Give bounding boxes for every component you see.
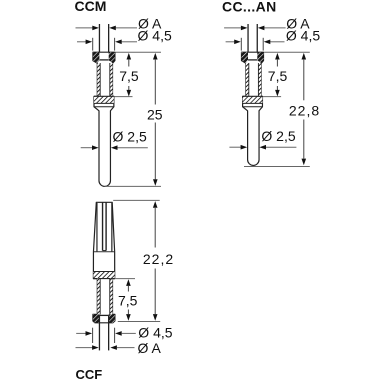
svg-text:Ø 4,5: Ø 4,5: [138, 28, 172, 44]
CCF crimp tube walls: [99, 315, 108, 350]
CCF dim ØA leader: [76, 347, 93, 349]
CCM barrel inner wall lines: [99, 63, 101, 96]
svg-text:Ø 4,5: Ø 4,5: [138, 324, 172, 340]
CCF sleeve slot lines: [103, 202, 107, 250]
CC...AN knurled collar band: [243, 96, 263, 103]
CCF sleeve nose transition line: [94, 251, 114, 253]
CCF barrel inner wall lines: [99, 279, 101, 315]
CCF dim 7,5: [126, 279, 131, 286]
CCF flange inner shoulder line: [99, 314, 108, 316]
CCM flange inner shoulder line: [99, 59, 108, 61]
CCF band-bottom extension line: [115, 278, 135, 280]
svg-text:CC...AN: CC...AN: [222, 0, 277, 15]
svg-text:CCM: CCM: [75, 0, 107, 14]
CC...AN dim Ø4,5 leader: [226, 41, 285, 43]
CC...AN dim Ø4,5 ticks: [241, 38, 263, 51]
CCM body outline (flange, barrel, collar, pin): [93, 52, 115, 186]
CC...AN collar-top extension line: [263, 96, 281, 98]
CCF dim Ø4,5 ticks: [93, 328, 115, 343]
CC...AN flange-top extension line: [264, 51, 310, 53]
svg-text:7,5: 7,5: [118, 292, 138, 308]
CCM dim 7,5: [127, 53, 132, 60]
CCF knurled band: [93, 272, 114, 279]
CC...AN crimp tube walls: [248, 24, 257, 60]
svg-text:Ø 2,5: Ø 2,5: [261, 128, 295, 144]
CCM dim Ø4,5 ticks: [93, 38, 115, 51]
CC...AN barrel inner wall lines: [248, 63, 250, 96]
CCF dim Ø4,5 leader: [76, 332, 86, 334]
CC...AN barrel hatched walls: [246, 63, 249, 96]
CCF barrel hatched walls: [97, 279, 100, 315]
CCM knurled collar band: [94, 96, 114, 103]
CC...AN dim Ø2,5 leader: [229, 146, 241, 148]
CCM dim Ø2,5 leader: [81, 147, 93, 149]
svg-text:22,8: 22,8: [289, 103, 320, 119]
CC...AN dim ØA leader: [224, 27, 286, 29]
CCF sleeve-top extension line: [113, 199, 160, 201]
svg-text:Ø 4,5: Ø 4,5: [286, 28, 320, 44]
CCM dim Ø4,5 leader: [77, 41, 137, 43]
CC...AN body outline: [242, 52, 264, 165]
CCM flange-top extension line: [116, 51, 162, 53]
CCM barrel hatched walls: [97, 63, 100, 96]
CCF body outline (sleeve, band, barrel, flange): [93, 202, 115, 322]
CCF sleeve slot bottom cap: [103, 250, 107, 252]
CC...AN flange inner shoulder line: [248, 59, 257, 61]
CCF dim 22,2: [153, 201, 158, 208]
CCF flange hatched walls: [93, 314, 100, 322]
svg-text:25: 25: [147, 106, 163, 122]
svg-text:7,5: 7,5: [119, 68, 139, 84]
CCM pin-bottom extension line: [105, 185, 162, 187]
CCM flange hatched walls: [93, 52, 100, 63]
CCM dim ØA leader: [76, 27, 138, 29]
CC...AN flange hatched walls: [242, 52, 249, 63]
CCM dim 25: [153, 53, 158, 60]
CCM collar-top extension line: [114, 96, 132, 98]
svg-text:CCF: CCF: [76, 367, 103, 380]
CCF flange-bottom extension line: [118, 321, 160, 323]
CC...AN dim 7,5: [275, 53, 280, 60]
CCF sleeve inner bore lines: [97, 203, 112, 252]
CCM crimp tube walls: [99, 24, 108, 60]
svg-text:Ø 2,5: Ø 2,5: [113, 128, 147, 144]
CC...AN pin-bottom extension line: [244, 166, 310, 168]
svg-text:22,2: 22,2: [143, 251, 174, 267]
svg-text:7,5: 7,5: [268, 68, 288, 84]
svg-text:Ø A: Ø A: [138, 340, 162, 356]
CC...AN dim 22,8: [302, 53, 307, 60]
